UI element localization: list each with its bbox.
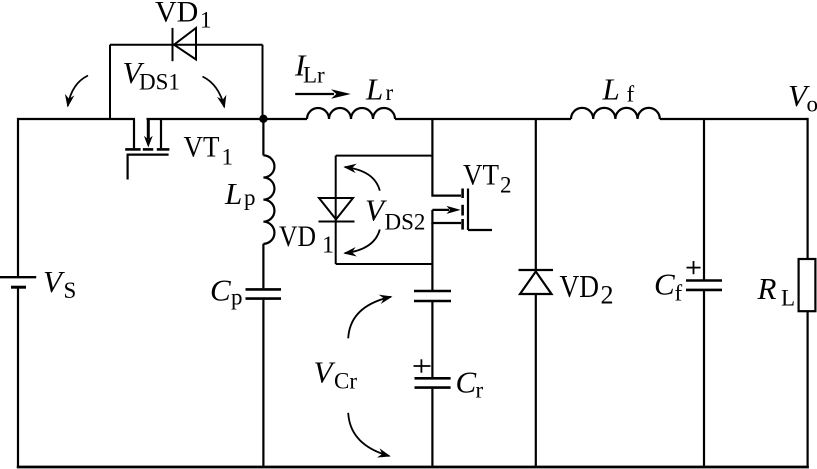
arrow ILr current arrow (295, 89, 351, 99)
wire middle branch from rail to VT2 drain (432, 119, 461, 196)
wire VD2 branch upper (535, 119, 537, 269)
svg-text:p: p (244, 185, 256, 210)
wire RL branch upper (806, 118, 808, 259)
svg-text:1: 1 (222, 145, 234, 170)
svg-text:DS2: DS2 (385, 210, 426, 235)
svg-text:V: V (314, 355, 336, 390)
svg-text:V: V (43, 264, 65, 299)
svg-text:2: 2 (500, 173, 512, 198)
resistor RL (799, 259, 816, 311)
wire Lp to Cp (262, 244, 264, 288)
transistor VT1 gate lead (126, 155, 128, 180)
diode VD1 (173, 28, 197, 61)
wire VDS1 loop left vertical (109, 45, 111, 119)
inductor Lf (571, 108, 660, 119)
svg-text:C: C (210, 273, 231, 308)
svg-text:VD: VD (279, 220, 316, 253)
svg-text:C: C (456, 365, 477, 400)
capacitor Cr (415, 378, 451, 387)
wire VDS1 loop right vertical (262, 45, 264, 119)
wire left branch lower (17, 289, 19, 469)
transistor VT1 source stub (160, 119, 162, 148)
transistor VT1 gate plate (127, 154, 169, 156)
svg-text:VT: VT (184, 131, 220, 164)
svg-text:o: o (807, 92, 817, 117)
capacitor (snubber, unnamed) (414, 291, 451, 301)
diode VD2 (519, 270, 554, 294)
transistor VT2 gate plate (467, 189, 469, 231)
wire VDS1 loop top (110, 44, 263, 46)
arrow curved VCr top (348, 297, 391, 339)
wire Cf branch upper (703, 119, 705, 280)
capacitor Cp (246, 289, 282, 298)
plus sign of Cr (414, 359, 431, 372)
svg-text:Cr: Cr (334, 369, 357, 394)
transistor Q VT1 drain stub (133, 119, 135, 148)
wire RL branch lower (806, 311, 808, 468)
svg-text:r: r (476, 378, 484, 403)
transistor VT2 body arrow (432, 206, 460, 214)
svg-text:2: 2 (601, 281, 614, 310)
inductor Lp (263, 155, 274, 243)
svg-text:1: 1 (322, 233, 334, 259)
svg-text:L: L (781, 286, 795, 311)
svg-text:VD: VD (155, 0, 198, 29)
arrow curved left of VDS1 (68, 76, 88, 107)
svg-text:L: L (602, 72, 620, 107)
svg-text:f: f (675, 281, 683, 306)
inductor Lr (307, 108, 395, 119)
svg-text:VT: VT (463, 159, 499, 192)
svg-text:R: R (757, 271, 777, 306)
arrow curved right of VDS1 (203, 77, 225, 108)
svg-text:Lr: Lr (303, 63, 325, 88)
node dot at junction (259, 115, 267, 123)
wire top rail between Lr and Lf (395, 118, 571, 120)
transistor VT1 channel segments (125, 148, 169, 151)
battery VS short plate (11, 286, 26, 289)
svg-text:L: L (365, 72, 383, 107)
wire VDS2 loop left vertical (335, 156, 337, 264)
transistor VT2 channel segments (461, 189, 464, 230)
transistor VT2 source lead (432, 210, 461, 223)
wire VDS2 loop top (336, 155, 433, 157)
plus sign of Cf (687, 261, 701, 274)
capacitor Cf (686, 281, 722, 290)
svg-text:VD: VD (560, 268, 600, 304)
wire VT2 source down through loop bottom (431, 223, 433, 290)
wire top rail right segment (660, 118, 808, 120)
svg-text:S: S (64, 278, 77, 303)
svg-text:f: f (627, 82, 635, 107)
svg-text:DS1: DS1 (139, 70, 180, 95)
svg-text:C: C (654, 267, 675, 302)
arrow curved bottom inside VDS2 loop (345, 230, 380, 254)
wire VD2 branch lower (535, 294, 537, 468)
wire left branch upper (17, 118, 19, 277)
wire top rail left segment (18, 118, 135, 120)
wire Lp branch upper (262, 119, 264, 155)
wire between capacitors (431, 302, 433, 377)
svg-text:p: p (231, 285, 243, 310)
wire VDS2 loop bottom (336, 263, 433, 265)
wire top rail middle segment (147, 118, 308, 120)
wire Cr to bottom rail (431, 389, 433, 468)
svg-text:1: 1 (200, 8, 212, 33)
diode VD1 body (in VDS2 loop) (319, 198, 355, 222)
battery VS long plate (0, 276, 36, 278)
wire bottom rail (17, 466, 809, 469)
transistor VT2 gate lead (468, 229, 492, 231)
arrow curved VCr bottom (348, 413, 389, 456)
arrow curved top inside VDS2 loop (345, 167, 380, 191)
transistor VT1 body arrow (144, 120, 153, 148)
svg-text:L: L (224, 176, 242, 211)
wire Cp to bottom rail (262, 300, 264, 468)
svg-text:r: r (386, 80, 394, 105)
wire Cf branch lower (703, 291, 705, 468)
